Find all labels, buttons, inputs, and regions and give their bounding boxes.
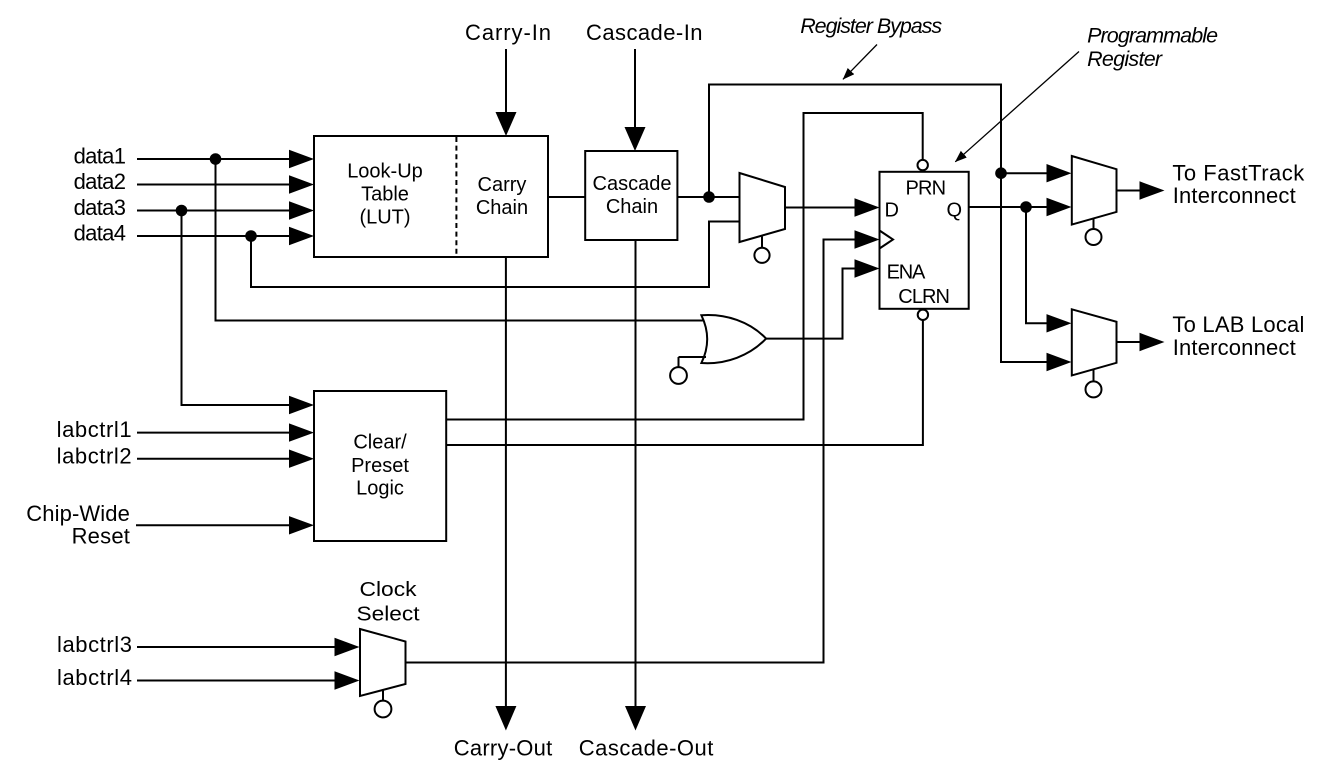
svg-text:labctrl3: labctrl3 [57,632,132,657]
svg-text:Clear/: Clear/ [353,432,407,454]
mux U1 (register bypass mux) [740,173,786,263]
svg-text:labctrl1: labctrl1 [57,417,132,442]
svg-text:D: D [885,200,899,222]
svg-text:Register: Register [1087,47,1163,71]
svg-text:Select: Select [357,604,420,626]
mux U6 (LAB local output) [1072,309,1117,397]
CLRN bubble [918,310,928,320]
svg-text:Chain: Chain [476,197,528,219]
junction on data3 [176,205,188,217]
mux U5 (FastTrack output) [1072,156,1117,245]
node data4 label [74,221,126,246]
svg-text:labctrl4: labctrl4 [57,665,132,690]
svg-text:data1: data1 [74,144,126,169]
junction on data4 [245,230,257,242]
wire bypass to FastTrack mux input [1001,164,1072,182]
wire Clear/Preset output to CLRN [446,321,923,446]
wire data3 [137,201,314,219]
svg-text:Carry: Carry [478,174,527,196]
svg-text:Clock: Clock [360,579,418,601]
mux U4 (clock select) [360,629,406,717]
wire data4 [137,227,314,245]
node To FastTrack Interconnect label [1172,160,1305,208]
svg-text:Interconnect: Interconnect [1173,335,1296,360]
wire clock select output to register clock [405,230,880,662]
node labctrl2 label [57,443,132,468]
node data2 label [74,169,126,194]
Register Bypass callout arrow [843,45,877,80]
svg-text:Carry-In: Carry-In [465,20,551,45]
node Cascade-Out label [579,735,714,760]
Register Bypass callout label [800,14,942,38]
wire data1 to OR gate input [216,159,705,321]
Clock Select label [357,579,420,626]
wire carry chain to cascade chain [548,196,585,198]
svg-text:data4: data4 [74,221,126,246]
svg-text:CLRN: CLRN [898,286,950,308]
node Carry-Out label [454,735,552,760]
svg-text:Chip-Wide: Chip-Wide [26,501,130,526]
wire labctrl4 [137,671,360,689]
wire LAB mux output [1117,333,1165,351]
wire cascade chain output to mux [677,196,739,198]
junction bypass to FastTrack mux [995,167,1007,179]
node Chip-Wide Reset label [26,501,130,549]
svg-text:ENA: ENA [887,262,926,284]
wire labctrl1 [137,423,314,441]
svg-text:Look-Up: Look-Up [347,161,423,183]
wire OR output to ENA [766,259,880,338]
node data3 label [74,195,126,220]
wire mux output to D input [785,198,880,216]
node labctrl3 label [57,632,132,657]
svg-text:Preset: Preset [351,455,409,477]
wire cascade-out vertical [625,240,646,731]
Programmable Register callout label [1087,24,1218,71]
svg-text:Chain: Chain [606,196,658,218]
svg-text:Q: Q [947,200,963,222]
junction on data1 [210,153,222,165]
svg-text:Cascade: Cascade [593,173,672,195]
svg-text:Register Bypass: Register Bypass [800,14,942,38]
svg-text:data3: data3 [74,195,126,220]
wire Clear/Preset output to PRN [446,113,923,420]
node labctrl4 label [57,665,132,690]
svg-text:Table: Table [361,184,409,206]
Clear/Preset Logic block [314,391,446,541]
svg-text:PRN: PRN [906,177,947,199]
svg-text:(LUT): (LUT) [359,207,410,229]
svg-text:Programmable: Programmable [1087,24,1218,48]
node labctrl1 label [57,417,132,442]
junction Q to LAB mux [1020,201,1032,213]
svg-text:To LAB Local: To LAB Local [1172,312,1304,337]
LUT / Carry Chain block [314,136,548,257]
wire data1 [137,150,314,168]
wire register bypass [709,85,1072,372]
svg-text:Cascade-Out: Cascade-Out [579,735,714,760]
junction cascade output [703,191,715,203]
wire Cascade-In vertical [625,49,646,151]
wire Chip-Wide Reset [136,516,314,534]
PRN bubble [918,160,928,170]
svg-text:data2: data2 [74,169,126,194]
wire Q to LAB mux input [1026,207,1072,333]
svg-text:Logic: Logic [356,478,404,500]
Cascade Chain block [585,151,677,240]
wire Q output [969,198,1072,216]
svg-text:Interconnect: Interconnect [1173,183,1296,208]
wire data3 to Clear/Preset input [182,211,315,415]
svg-text:Cascade-In: Cascade-In [586,20,703,45]
svg-text:Reset: Reset [72,524,130,549]
wire labctrl3 [137,638,360,656]
OR gate U2 [701,315,766,363]
node data1 label [74,144,126,169]
Programmable Register callout arrow [955,52,1079,162]
wire carry-out vertical [495,257,516,731]
wire Carry-In vertical [496,49,517,136]
svg-text:Carry-Out: Carry-Out [454,735,552,760]
node Carry-In label [465,20,551,45]
wire data2 [137,175,314,193]
OR gate inverted input circle [670,357,706,384]
node To LAB Local Interconnect label [1172,312,1304,360]
wire data4 to mux lower input [251,222,740,288]
node Cascade-In label [586,20,703,45]
programmable register U3 (D flip-flop) [880,172,969,309]
wire labctrl2 [137,450,314,468]
svg-text:To FastTrack: To FastTrack [1172,160,1305,185]
wire FastTrack mux output [1117,181,1165,199]
svg-text:labctrl2: labctrl2 [57,443,132,468]
